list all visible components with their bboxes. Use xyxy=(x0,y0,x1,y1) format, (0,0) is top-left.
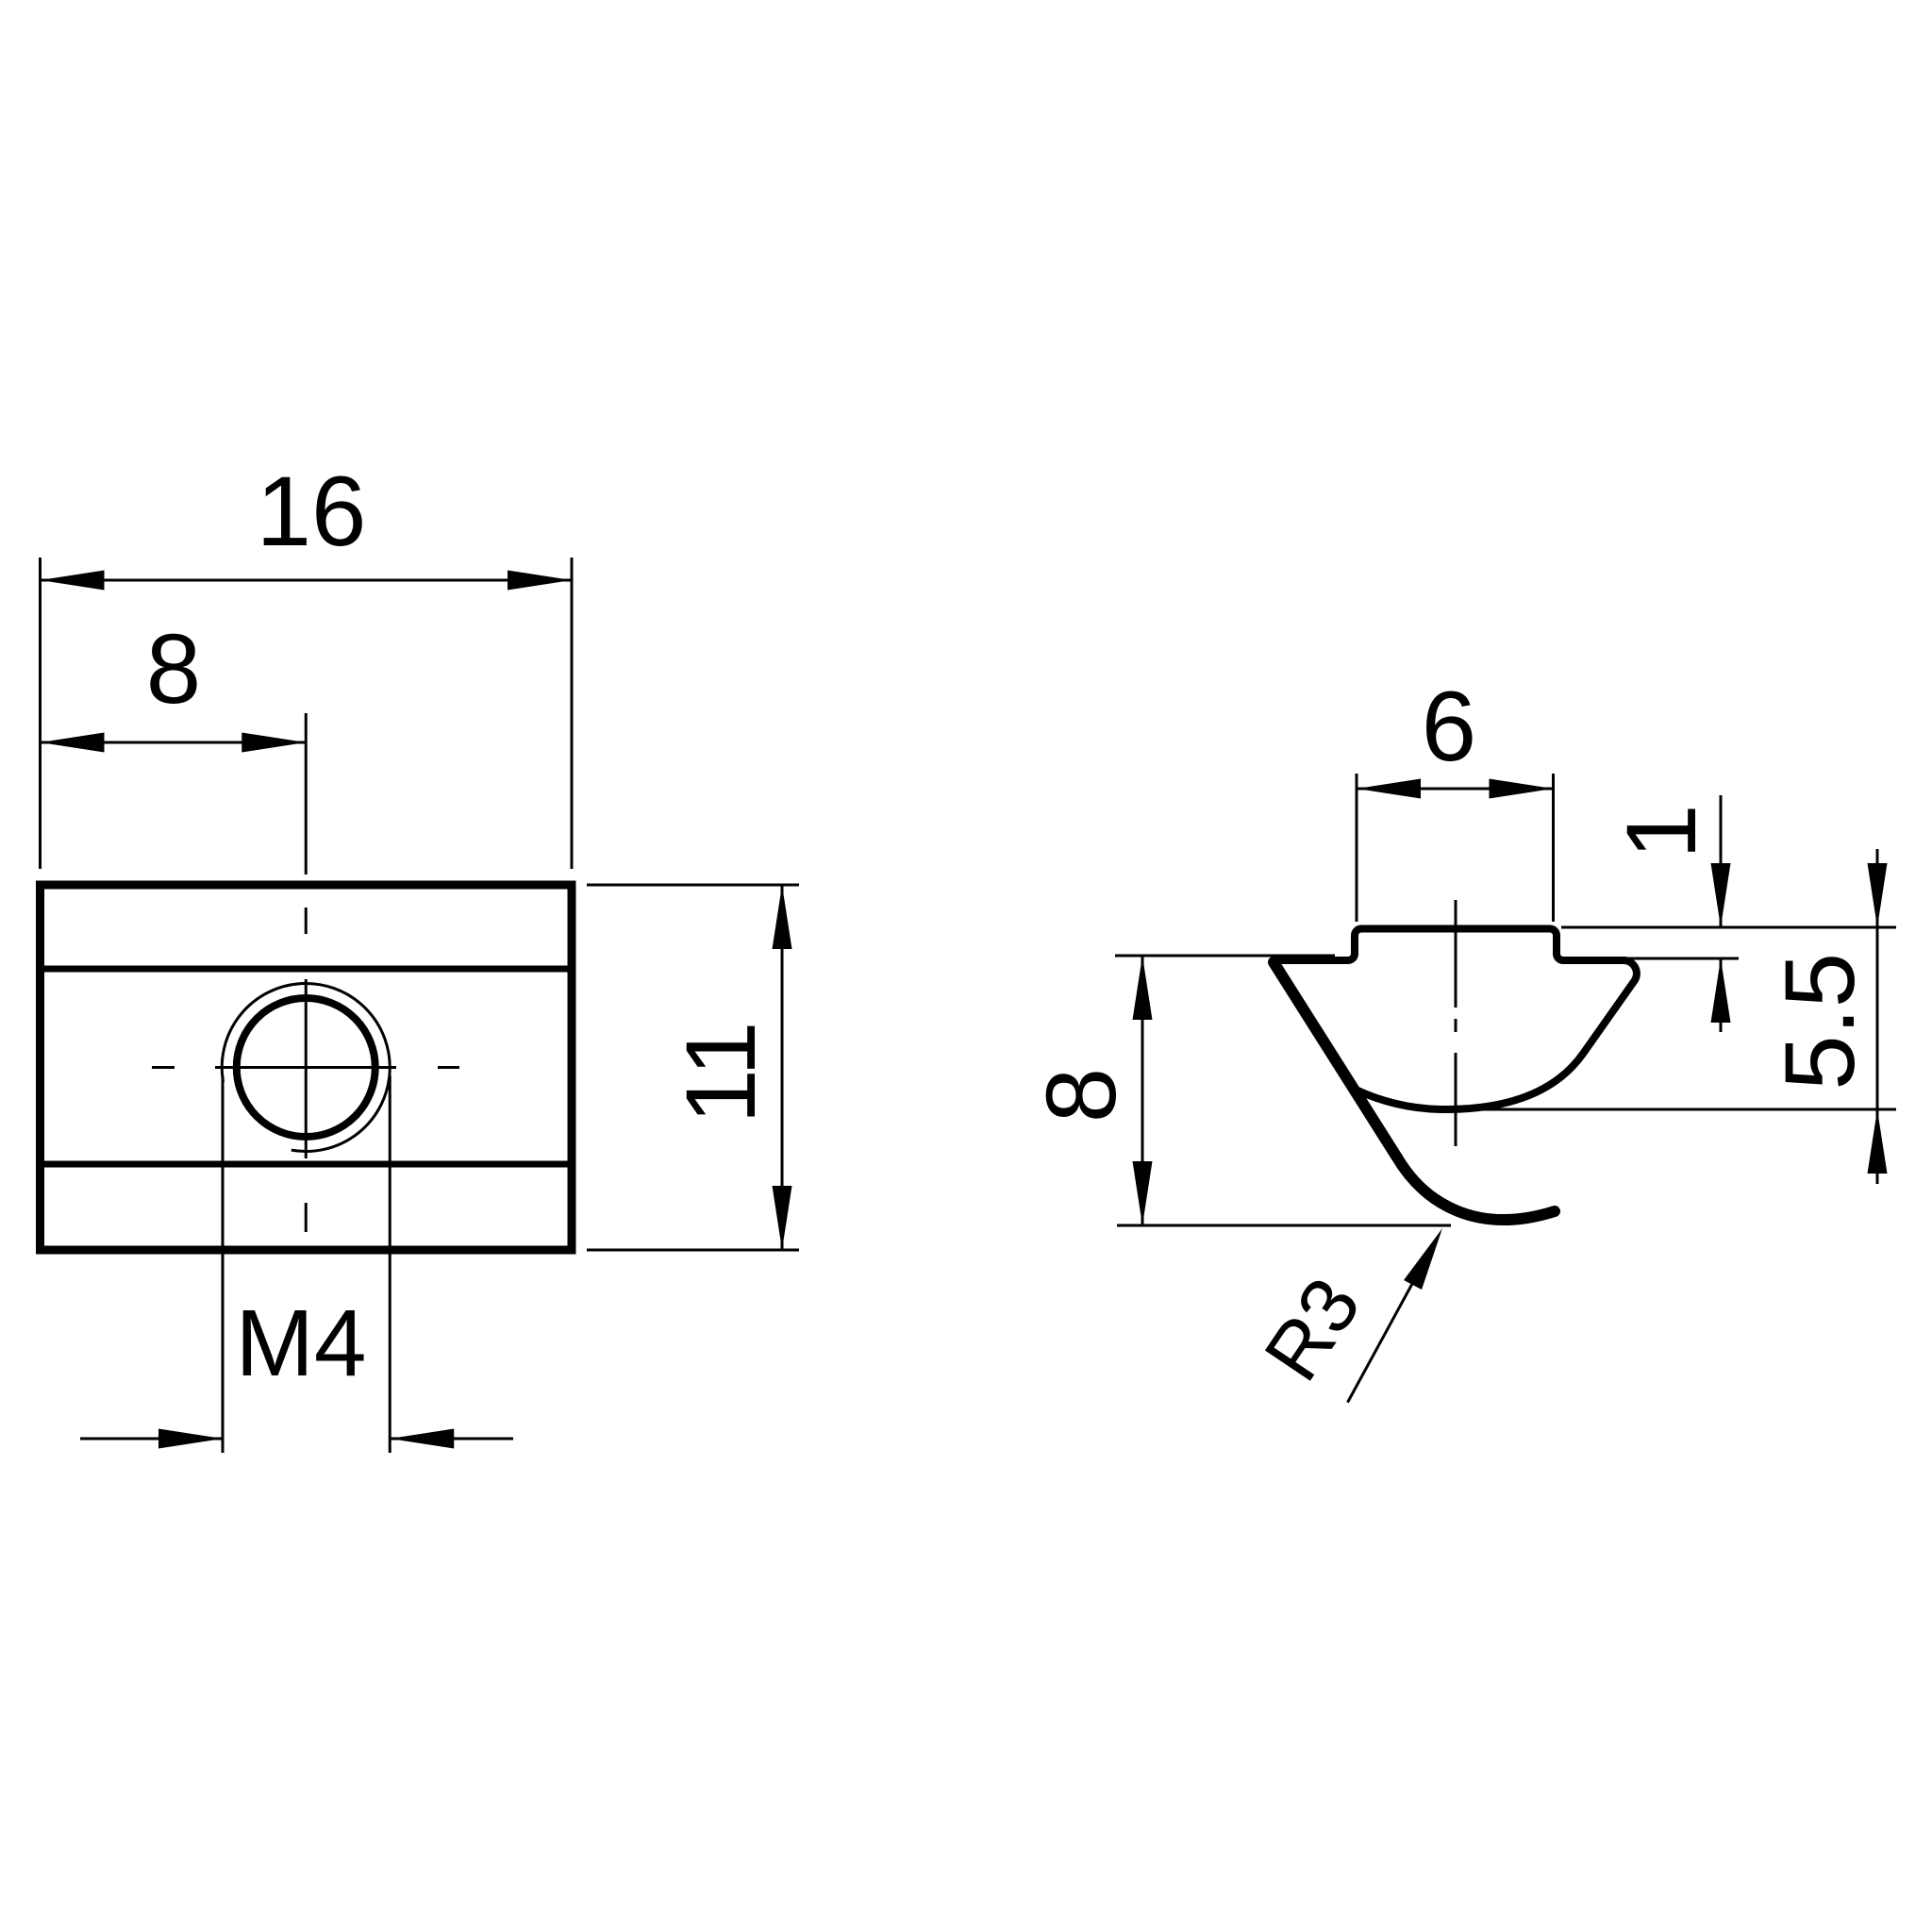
vertical centerline of hole xyxy=(305,908,308,1232)
dimension M4 xyxy=(80,1075,513,1453)
nut body profile (side view) xyxy=(1274,929,1637,1110)
thread major 3/4 arc xyxy=(222,984,390,1152)
tab edge line upper (top view) xyxy=(42,966,570,973)
dimension 5.5 xyxy=(1425,849,1896,1184)
dimension 8 (side view) xyxy=(1115,956,1451,1225)
dimension 6 xyxy=(1357,774,1554,922)
vertical centerline (side view) xyxy=(1455,900,1457,1146)
nut body outline (top view rectangle) xyxy=(41,885,573,1250)
svg-text:16: 16 xyxy=(257,457,367,567)
tab edge line lower (top view) xyxy=(42,1161,570,1168)
svg-text:11: 11 xyxy=(666,1022,776,1124)
dimension 8 (hole position) xyxy=(41,713,307,874)
dimension R3 leader xyxy=(1348,1251,1431,1403)
dimension 1 (step) xyxy=(1561,795,1896,1032)
dimension 16 xyxy=(41,558,573,869)
dimension 11 xyxy=(587,885,799,1250)
threaded hole minor circle xyxy=(237,998,375,1137)
horizontal centerline of hole xyxy=(152,1066,459,1069)
svg-text:8: 8 xyxy=(1026,1068,1137,1123)
svg-text:8: 8 xyxy=(146,614,201,724)
svg-text:5.5: 5.5 xyxy=(1765,953,1875,1091)
svg-text:1: 1 xyxy=(1607,804,1717,858)
svg-text:M4: M4 xyxy=(236,1291,367,1396)
spring leaf xyxy=(1274,962,1555,1220)
svg-text:6: 6 xyxy=(1422,672,1476,782)
